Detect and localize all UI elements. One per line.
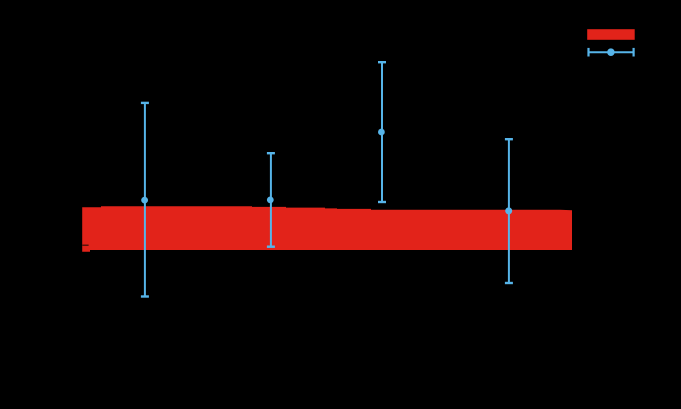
point 1 — [141, 197, 148, 204]
dark notch line at band left edge — [82, 245, 88, 247]
point 3 — [378, 129, 385, 136]
error bar 2 — [267, 153, 275, 247]
point 4 — [505, 207, 512, 214]
point 2 — [267, 197, 274, 204]
error bar 1 — [141, 103, 149, 297]
red band (fill_between) — [82, 206, 572, 252]
legend marker dot — [607, 48, 615, 56]
error bar 3 — [378, 62, 386, 202]
legend band swatch — [587, 29, 635, 40]
legend errorbar icon — [589, 48, 634, 57]
error bar 4 — [505, 139, 513, 283]
